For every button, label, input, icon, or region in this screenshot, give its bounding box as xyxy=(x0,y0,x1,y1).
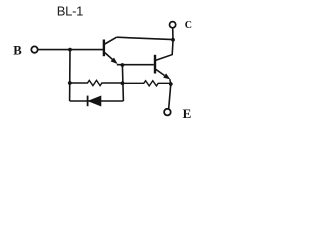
resistor R2 xyxy=(123,81,171,86)
transistor Q1 xyxy=(104,37,117,63)
wire Q1 emitter to Q2 base xyxy=(117,64,154,66)
wire diode branch xyxy=(70,100,124,102)
node Y mid junction (R1/R2) xyxy=(121,81,125,85)
wire B to Q1 base xyxy=(38,49,103,51)
svg-text:B: B xyxy=(13,43,22,57)
wire collector rail xyxy=(117,37,173,39)
diode D1 xyxy=(88,96,101,107)
node R1 left junction xyxy=(68,81,72,85)
node E junction xyxy=(169,82,173,86)
wire node Y vertical xyxy=(122,65,123,101)
transistor Q2 xyxy=(155,41,173,84)
node at B rail junction xyxy=(68,48,72,52)
wire E terminal lead xyxy=(169,84,171,109)
resistor R1 xyxy=(70,80,123,85)
wire left rail down xyxy=(69,50,71,101)
wire C terminal lead xyxy=(172,28,174,40)
node collector rail junction xyxy=(171,38,175,42)
terminal E xyxy=(164,109,171,116)
node Q1 emitter junction xyxy=(121,63,125,67)
svg-text:C: C xyxy=(185,20,192,31)
svg-text:E: E xyxy=(183,106,192,121)
terminal C xyxy=(170,22,176,28)
terminal B xyxy=(31,46,37,52)
svg-text:BL-1: BL-1 xyxy=(57,4,83,19)
